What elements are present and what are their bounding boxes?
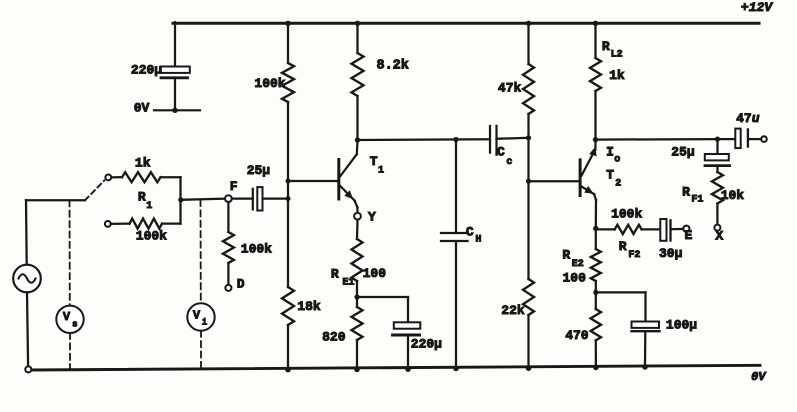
svg-text:100µ: 100µ — [666, 318, 697, 333]
svg-text:30µ: 30µ — [659, 246, 682, 261]
svg-text:18k: 18k — [297, 299, 321, 314]
svg-text:R: R — [138, 190, 146, 205]
svg-text:L2: L2 — [611, 50, 623, 61]
svg-text:i: i — [202, 318, 208, 328]
svg-text:R: R — [602, 39, 610, 54]
svg-text:47k: 47k — [498, 81, 522, 96]
svg-text:2: 2 — [615, 179, 621, 190]
svg-text:10k: 10k — [721, 188, 745, 203]
svg-text:100k: 100k — [136, 228, 167, 243]
svg-text:220µ: 220µ — [411, 337, 442, 352]
svg-text:R: R — [331, 267, 339, 282]
svg-text:I: I — [606, 144, 614, 159]
svg-text:0V: 0V — [134, 100, 150, 115]
svg-text:1: 1 — [378, 165, 384, 176]
svg-text:25µ: 25µ — [247, 163, 270, 178]
svg-text:R: R — [562, 247, 570, 262]
svg-text:E1: E1 — [342, 277, 354, 288]
svg-text:o: o — [614, 155, 620, 166]
svg-text:1k: 1k — [135, 156, 151, 171]
svg-text:s: s — [72, 319, 77, 329]
svg-text:C: C — [497, 144, 505, 159]
svg-text:C: C — [466, 225, 474, 240]
svg-text:E2: E2 — [572, 259, 584, 270]
svg-text:47u: 47u — [736, 111, 760, 126]
svg-text:V: V — [193, 308, 201, 322]
svg-text:E: E — [684, 228, 692, 243]
svg-text:X: X — [715, 229, 723, 244]
svg-text:V: V — [63, 310, 71, 324]
svg-text:R: R — [682, 185, 690, 200]
svg-text:220µ: 220µ — [131, 63, 162, 78]
svg-text:F1: F1 — [691, 194, 703, 205]
svg-text:Y: Y — [368, 210, 376, 225]
svg-text:470: 470 — [565, 328, 589, 343]
svg-text:R: R — [619, 239, 627, 254]
svg-text:100k: 100k — [241, 242, 272, 257]
svg-text:820: 820 — [322, 329, 346, 344]
svg-text:100: 100 — [562, 270, 586, 285]
svg-text:+12V: +12V — [741, 0, 773, 15]
svg-text:25µ: 25µ — [671, 145, 694, 160]
svg-text:1k: 1k — [609, 68, 625, 83]
svg-text:22k: 22k — [501, 303, 525, 318]
svg-text:1: 1 — [146, 201, 152, 212]
svg-text:0V: 0V — [751, 370, 767, 384]
svg-text:100k: 100k — [254, 76, 285, 91]
svg-text:100: 100 — [363, 266, 387, 281]
svg-text:8.2k: 8.2k — [376, 59, 408, 74]
svg-text:D: D — [237, 277, 245, 292]
svg-text:F2: F2 — [628, 250, 640, 261]
svg-text:F: F — [230, 179, 238, 194]
svg-text:T: T — [606, 168, 614, 183]
svg-text:c: c — [506, 157, 512, 168]
svg-text:T: T — [370, 154, 378, 169]
svg-text:100k: 100k — [611, 207, 642, 222]
svg-text:H: H — [475, 234, 481, 245]
